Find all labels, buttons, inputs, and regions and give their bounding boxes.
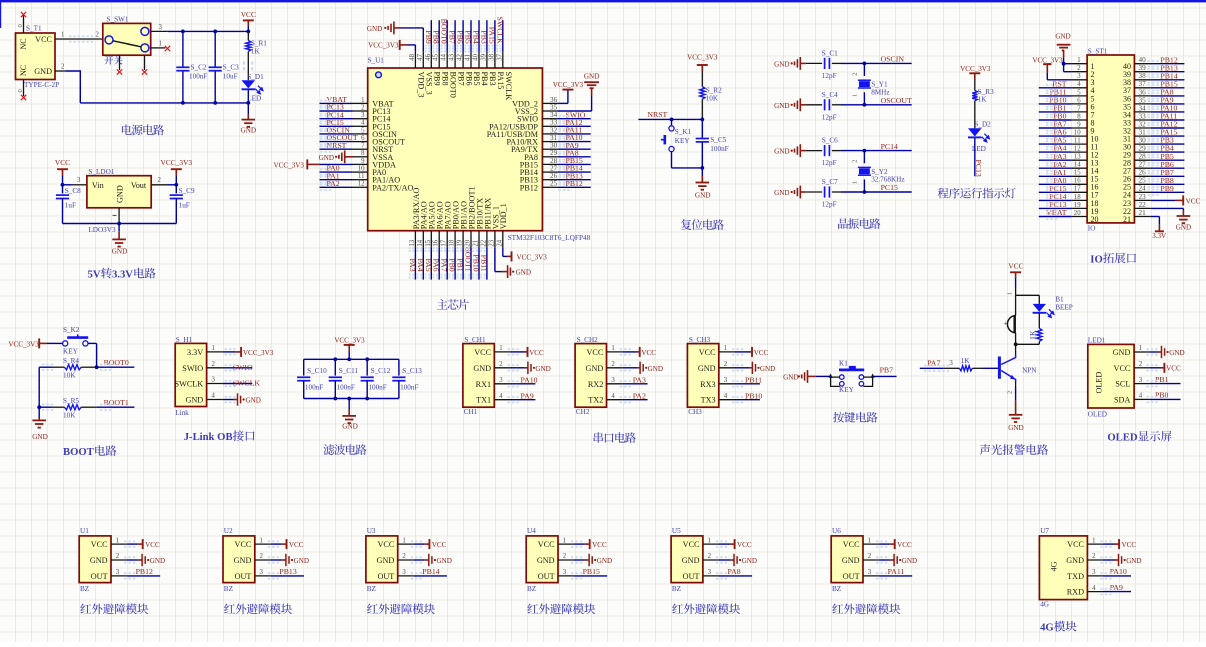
svg-text:20: 20 (1074, 210, 1081, 217)
svg-text:VCC_3V3: VCC_3V3 (160, 158, 192, 167)
wire alarm bottom tee (1016, 343, 1040, 345)
module U1 body (79, 536, 111, 583)
resistor S_R2 designator (706, 87, 722, 95)
MCU pin name PB5 (top) (472, 72, 481, 86)
svg-text:GND: GND (1176, 224, 1191, 232)
MCU pin 47 (VSS_3) (417, 51, 424, 68)
no-ERC cross SW1 pin a (117, 69, 122, 74)
grid dashes S_CH3 (732, 348, 743, 403)
junction NRST-cap (700, 118, 704, 122)
capacitor S_C1 value (822, 72, 837, 80)
grid dashes PA11 right (559, 130, 570, 137)
svg-text:PB5: PB5 (472, 72, 481, 86)
header pin 9 (1071, 121, 1087, 128)
resistor S_R1 value (251, 48, 261, 56)
net label OSCOUT (881, 96, 912, 105)
MCU pin name PA4/AO (bottom) (420, 201, 429, 229)
header pin name 35 (1123, 102, 1131, 111)
net label PB13 (566, 171, 583, 180)
wire net PA11 (right) (558, 133, 591, 135)
svg-text:S_C8: S_C8 (65, 187, 81, 195)
power ground GND at S_C1 (774, 57, 806, 70)
net label PB0 (header) (1053, 112, 1067, 121)
svg-text:1: 1 (116, 537, 119, 544)
svg-text:2: 2 (212, 361, 216, 368)
S_CH1 pin name TX1 (476, 396, 491, 405)
header pin 16 (1071, 178, 1087, 185)
U1 pin 3 (111, 569, 127, 576)
buzzer B1 top lead (1006, 288, 1015, 316)
net label PB5 (header) (1160, 152, 1174, 161)
svg-text:32: 32 (1139, 120, 1147, 128)
svg-text:U6: U6 (832, 527, 841, 535)
svg-text:KEY: KEY (675, 137, 691, 145)
display LED1 designator (1088, 337, 1106, 345)
LED B1 BEEP (1033, 304, 1054, 318)
capacitor S_C1 lead2 (832, 62, 841, 64)
svg-text:GND: GND (112, 247, 128, 255)
buzzer B1 (1004, 316, 1016, 333)
svg-text:1: 1 (1006, 292, 1013, 295)
MCU pin name PB2/BOOT1 (bottom) (467, 186, 476, 229)
header pin name 17 (1091, 191, 1099, 200)
U5 pin 3 (703, 569, 719, 576)
power port VCC U5 (719, 539, 752, 549)
header pin 13 (1071, 154, 1087, 161)
svg-text:1uF: 1uF (179, 202, 190, 210)
svg-text:PB9: PB9 (433, 72, 442, 86)
net label PA9 (566, 141, 579, 150)
svg-text:3: 3 (402, 569, 406, 576)
wire net PB11 (735, 383, 760, 385)
wire net PB14 (header right) (1151, 79, 1185, 81)
MCU pin 28 (PB15) (542, 157, 557, 165)
svg-text:PB13: PB13 (279, 567, 296, 576)
svg-text:Link: Link (175, 409, 189, 417)
junction LDO GND (117, 222, 121, 226)
svg-text:PB10: PB10 (745, 392, 762, 401)
wire net SWIO jlink (223, 367, 252, 369)
power port VCC alarm (1008, 261, 1023, 278)
MCU pin name PA0 (372, 168, 386, 177)
svg-text:GND: GND (742, 557, 757, 565)
wire net PB11 (header left) (1039, 95, 1072, 97)
header pin 37 (1134, 80, 1151, 88)
capacitor S_C8 lead (62, 185, 64, 194)
power port VCC_3V3 jlink (223, 347, 274, 357)
net label OSCOUT (327, 133, 358, 142)
ground GND power circuit (241, 120, 257, 135)
net label PA3 (bottom) (408, 259, 417, 272)
title 红外避障模块 U3 (367, 603, 435, 614)
svg-text:GND: GND (516, 269, 531, 277)
capacitor S_C12 value (368, 384, 386, 392)
net label PA5 (header) (1053, 136, 1066, 145)
svg-text:4: 4 (1092, 585, 1096, 592)
header pin name 33 (1123, 118, 1131, 127)
MCU pin name PA8 (524, 153, 538, 162)
svg-text:10uF: 10uF (223, 73, 238, 81)
svg-text:PB7: PB7 (880, 366, 894, 375)
MCU pin 5 (OSCIN) (353, 127, 368, 134)
wire net RST (header left) (1039, 87, 1072, 89)
S_CH1 pin name VCC (474, 348, 491, 357)
MCU pin 22 (PB11/RX) (480, 231, 487, 248)
svg-text:PA15: PA15 (487, 27, 496, 44)
MCU pin 6 (OSCOUT) (353, 135, 368, 142)
net label PB0 (bottom) (448, 258, 457, 272)
net label OSCIN (327, 126, 351, 135)
svg-text:GND: GND (695, 192, 711, 200)
svg-text:PA3: PA3 (633, 376, 646, 385)
svg-text:44: 44 (441, 53, 448, 60)
MCU pin name PC15 (372, 122, 390, 131)
header pin 23 (1134, 193, 1151, 201)
wire net PB1 (bottom) (462, 248, 464, 280)
header pin name 12 (1091, 151, 1099, 160)
net label PC14 (header) (1049, 192, 1066, 201)
svg-text:13: 13 (409, 239, 416, 246)
crystal S_Y2 top lead (863, 151, 865, 164)
LED1 pin 2 (1134, 361, 1150, 368)
grid dashes SWIO right (559, 115, 570, 122)
power port VCC LDO (55, 158, 70, 176)
svg-text:100nF: 100nF (189, 73, 207, 81)
capacitor S_C11 value (337, 384, 355, 392)
svg-text:BOOT0: BOOT0 (104, 358, 129, 367)
U2 pin name GND (234, 556, 252, 565)
grid dashes PC15 left (320, 123, 331, 130)
header S_ST1 subpart IO (1088, 224, 1096, 232)
power port 3.3V header pin21 (1151, 217, 1167, 240)
wire K2 to BOOT0 (88, 343, 97, 367)
svg-text:1K: 1K (1028, 330, 1037, 340)
serial header S_CH1 designator (464, 336, 486, 344)
MCU pin name PB11/RX (bottom) (483, 198, 492, 230)
wire net PC13 (left) (320, 110, 353, 112)
svg-text:3: 3 (1077, 73, 1081, 80)
grid dashes OSCOUT left (320, 138, 331, 145)
header pin 10 (1071, 130, 1087, 137)
svg-text:Vin: Vin (92, 181, 104, 190)
MCU pin name PA6/AO (bottom) (436, 201, 445, 229)
capacitor S_C12 lead2 (366, 381, 368, 399)
resistor S_R4 designator (63, 357, 79, 365)
title 红外避障模块 U2 (224, 603, 292, 614)
svg-text:PC15: PC15 (881, 183, 898, 192)
resistor S_R1 (246, 41, 251, 52)
wire net PA11 (header right) (1151, 119, 1185, 121)
capacitor S_C12 (361, 377, 374, 380)
net label NRST (327, 141, 347, 150)
grid dashes PA10 right (559, 138, 570, 145)
net label PB15 U4 (583, 567, 600, 576)
header pin 26 (1134, 169, 1151, 177)
module U4 designator (527, 527, 536, 535)
power port VCC_3V3 indicator (960, 65, 991, 79)
U1 pin name GND (90, 556, 108, 565)
svg-text:100nF: 100nF (305, 384, 323, 392)
S_CH1 pin 2 (494, 361, 510, 368)
ground GND header pin22 (1151, 208, 1191, 231)
header S_H1 designator (176, 336, 193, 344)
svg-text:4: 4 (499, 393, 503, 400)
header pin name 1 (1091, 62, 1095, 71)
svg-text:GND: GND (774, 102, 789, 110)
svg-text:39: 39 (480, 53, 487, 60)
header pin 4 (1071, 81, 1087, 88)
svg-text:12pF: 12pF (822, 159, 837, 167)
switch S_SW1 upper right contact (141, 27, 149, 35)
svg-text:TXD: TXD (1067, 572, 1084, 581)
wire net PA3 (623, 383, 648, 385)
svg-text:VCC_3V3: VCC_3V3 (368, 42, 399, 50)
title 红外避障模块 U4 (527, 603, 595, 614)
title OLED显示屏 (1107, 431, 1171, 444)
net label PC13 (327, 103, 344, 112)
wire net OSCOUT (left) (320, 141, 353, 143)
header pin 40 (1134, 56, 1151, 64)
svg-text:PB1: PB1 (456, 258, 465, 272)
svg-text:SWCLK: SWCLK (495, 17, 504, 45)
svg-text:PA2/TX/AO: PA2/TX/AO (372, 183, 413, 192)
svg-text:OLED: OLED (1107, 432, 1138, 444)
U3 pin name OUT (377, 572, 394, 581)
svg-text:5: 5 (361, 127, 365, 134)
svg-text:PA15: PA15 (496, 72, 505, 90)
svg-text:21: 21 (473, 240, 480, 247)
MCU pin 21 (PB10/TX) (473, 231, 480, 248)
wire net PB15 (header right) (1151, 87, 1185, 89)
header pin name 7 (1091, 110, 1095, 119)
header pin 19 (1071, 202, 1087, 209)
module U7 designator (1040, 527, 1049, 535)
wire BOOT1 out (97, 406, 135, 408)
wire NRST (638, 118, 702, 120)
svg-text:J-Link OB: J-Link OB (184, 431, 233, 443)
header pin name 9 (1091, 126, 1095, 135)
U4 pin name GND (537, 556, 555, 565)
capacitor S_C2 lead (182, 31, 184, 66)
wire boot left rail (38, 367, 40, 420)
grid dashes PB4 (top) (472, 45, 477, 53)
net label PB15 (566, 156, 583, 165)
resistor S_R2 top lead (701, 71, 703, 87)
header S_ST1 designator (1088, 48, 1108, 56)
svg-text:100nF: 100nF (400, 384, 418, 392)
svg-text:GND: GND (537, 556, 555, 565)
net label PB14 (header) (1160, 71, 1177, 80)
net label PB7 (top) (448, 30, 457, 44)
capacitor S_C2 value (189, 73, 207, 81)
svg-text:3: 3 (708, 569, 712, 576)
module U4 body (526, 536, 558, 583)
svg-text:12pF: 12pF (822, 113, 837, 121)
svg-text:20: 20 (1091, 215, 1099, 224)
svg-text:2: 2 (116, 553, 120, 560)
svg-text:VCC_3V3: VCC_3V3 (553, 81, 584, 89)
svg-text:24: 24 (496, 239, 503, 246)
diode S_D1 designator (247, 73, 264, 81)
svg-text:BOOT1: BOOT1 (104, 398, 129, 407)
wire net PB5 (top) (470, 20, 472, 51)
grid dashes bottom area2 (0, 0, 1, 1)
svg-text:16: 16 (433, 239, 440, 246)
wire net PA4 (bottom) (422, 248, 424, 280)
U3 pin 2 (398, 553, 414, 560)
pin name GND vertical (115, 185, 124, 203)
junction C3 top (213, 30, 217, 34)
svg-text:PB4: PB4 (472, 30, 481, 44)
net label SWCLK (top) (495, 17, 504, 45)
header pin 28 (1134, 153, 1151, 161)
svg-text:VDD_1: VDD_1 (499, 203, 508, 229)
U1 pin name OUT (91, 572, 108, 581)
svg-text:21: 21 (1139, 209, 1147, 217)
U6 pin 1 (863, 537, 879, 544)
switch S_SW1 pin 1 (151, 40, 166, 48)
wire net PC15 (841, 191, 912, 193)
capacitor S_C2 (176, 67, 189, 70)
svg-text:S_CH3: S_CH3 (689, 336, 711, 344)
power port VCC header pin23 (1151, 195, 1201, 205)
wire net PA3 (header left) (1039, 159, 1072, 161)
MCU pin name PA10/RX (506, 138, 538, 147)
grid dashes PA12 right (559, 123, 570, 130)
module U6 subpart BZ (832, 585, 841, 593)
grid dashes PA7 (bottom) (441, 247, 446, 279)
net label PA10 (566, 133, 583, 142)
U3 pin 1 (398, 537, 414, 544)
S_CH2 pin name VCC (586, 348, 603, 357)
S_H1 pin 2 (207, 361, 223, 368)
svg-text:1: 1 (361, 97, 364, 104)
svg-text:1K: 1K (251, 48, 261, 56)
net label PA1 (327, 171, 340, 180)
svg-text:VCC: VCC (1067, 540, 1084, 549)
net label PB9 (top) (424, 30, 433, 44)
junction header pin1 (1062, 62, 1066, 66)
svg-text:1: 1 (1139, 345, 1142, 352)
U1 pin 1 (111, 537, 127, 544)
header pin name 31 (1123, 135, 1131, 144)
wire VCC_3V3 to VDDA (320, 163, 353, 165)
MCU pin 14 (PA4/AO) (417, 231, 424, 248)
svg-text:45: 45 (433, 53, 440, 60)
net label PA4 (header) (1053, 144, 1066, 153)
svg-text:PB11: PB11 (745, 376, 762, 385)
svg-text:1: 1 (563, 537, 566, 544)
svg-text:S_H1: S_H1 (176, 336, 193, 344)
wire net PB8 (header right) (1151, 183, 1185, 185)
svg-text:18: 18 (449, 239, 456, 246)
title 声光报警电路 (980, 444, 1048, 455)
junction C2 top (181, 30, 185, 34)
svg-text:9: 9 (1077, 121, 1081, 128)
svg-text:GND: GND (32, 433, 48, 441)
svg-text:GND: GND (1113, 348, 1131, 357)
S_H1 pin name GND (185, 396, 203, 405)
wire net OSCIN (left) (320, 133, 353, 135)
title 4G模块 (1040, 621, 1076, 634)
header pin 7 (1071, 105, 1087, 112)
svg-text:41: 41 (465, 54, 472, 61)
svg-text:BOOT0: BOOT0 (448, 72, 457, 98)
svg-text:OUT: OUT (91, 572, 108, 581)
U4 pin 3 (558, 569, 574, 576)
ground GND boot (32, 418, 48, 441)
net label PA5 (bottom) (424, 259, 433, 272)
svg-text:14: 14 (1074, 162, 1081, 169)
header pin name 32 (1123, 126, 1131, 135)
net label PB14 (566, 164, 583, 173)
key K1 label KEY (839, 386, 855, 394)
wire PA7 (920, 367, 944, 369)
capacitor S_C1 lead (806, 62, 822, 64)
svg-text:12pF: 12pF (822, 201, 837, 209)
svg-text:22: 22 (480, 239, 487, 246)
wire net PC14 (left) (320, 118, 353, 120)
S_CH1 pin name GND (473, 364, 491, 373)
crystal S_Y2 pin1 mark (852, 181, 859, 184)
grid dashes PA4 (bottom) (417, 247, 422, 279)
svg-text:VCC: VCC (754, 349, 769, 357)
power port VCC U1 (127, 539, 160, 549)
junction crystal PC15 (863, 190, 867, 194)
svg-text:S_ST1: S_ST1 (1088, 48, 1108, 56)
power port VCC_3V3 at VDDA (274, 159, 320, 169)
svg-text:18: 18 (1074, 194, 1081, 201)
net label PA12 (header) (1160, 120, 1177, 129)
MCU pin 19 (PB1/AO) (457, 231, 464, 248)
MCU pin 2 (PC13) (353, 104, 368, 111)
svg-text:PA6: PA6 (432, 259, 441, 272)
MCU pin 23 (VSS_1) (488, 231, 495, 248)
ground GND header top (1055, 33, 1070, 58)
svg-text:1: 1 (708, 537, 711, 544)
svg-text:S_CH1: S_CH1 (464, 336, 486, 344)
MCU pin 9 (VDDA) (353, 158, 368, 165)
MCU pin 7 (NRST) (353, 143, 368, 150)
svg-text:OLED: OLED (1088, 411, 1107, 419)
svg-text:1: 1 (852, 94, 859, 97)
header pin 8 (1071, 113, 1087, 120)
connector S_T1 pin 1 (55, 32, 103, 40)
svg-text:2: 2 (499, 361, 503, 368)
svg-text:16: 16 (1074, 178, 1081, 185)
svg-text:S_D2: S_D2 (974, 120, 991, 128)
header pin name 10 (1091, 135, 1099, 144)
net label PA2 (327, 179, 340, 188)
wire net PA1 (header left) (1039, 175, 1072, 177)
MCU pin 45 (PB8) (433, 51, 440, 68)
svg-text:12: 12 (1074, 146, 1081, 153)
svg-text:3: 3 (563, 569, 567, 576)
grid dashes PB3 (top) (480, 45, 485, 53)
svg-text:PB7: PB7 (448, 30, 457, 44)
U7 pin 3 (1087, 569, 1103, 576)
svg-text:S_C2: S_C2 (191, 64, 207, 72)
grid dashes U1 (124, 541, 135, 580)
header pin name 39 (1123, 70, 1131, 79)
net label PB6 (header) (1160, 160, 1174, 169)
connector S_T1 body (16, 33, 56, 80)
header pin 5 (1071, 89, 1087, 96)
S_CH2 pin 1 (607, 345, 623, 352)
U7 pin 2 (1087, 553, 1103, 560)
svg-text:3: 3 (1139, 377, 1143, 384)
svg-text:21: 21 (1123, 215, 1131, 224)
